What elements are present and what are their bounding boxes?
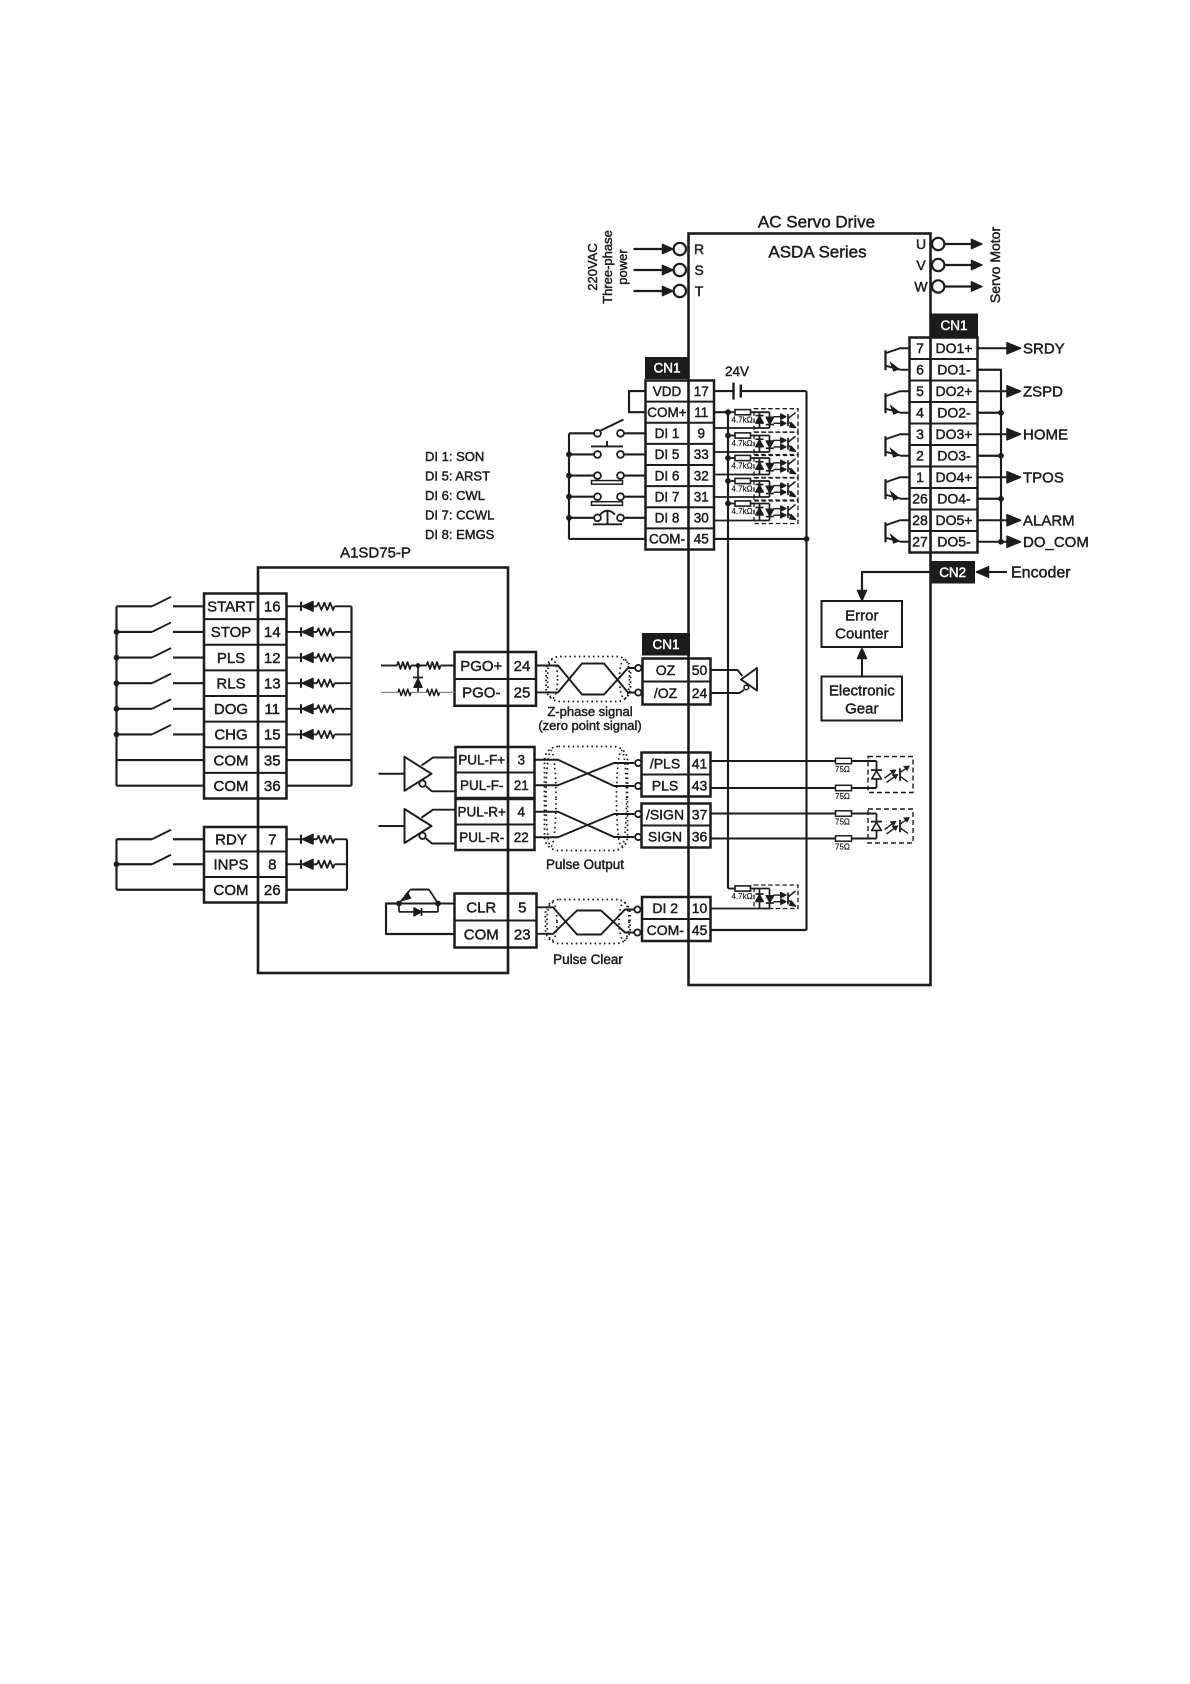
wire DI2 pin 10 to LED	[711, 908, 770, 910]
svg-text:4.7kΩ: 4.7kΩ	[732, 416, 753, 425]
optocoupler LED pair DI1	[759, 412, 761, 428]
svg-text:CN2: CN2	[939, 565, 966, 580]
junction DO5- bus	[998, 539, 1004, 545]
PUL-F pin table	[456, 771, 535, 773]
positioning signal pin table	[204, 618, 287, 620]
optocoupler DI6 dashed box	[754, 455, 798, 479]
pulse clear twisted wires	[537, 907, 635, 934]
svg-text:5: 5	[916, 383, 924, 399]
svg-text:36: 36	[264, 778, 281, 795]
svg-text:STOP: STOP	[211, 624, 252, 641]
svg-text:RDY: RDY	[215, 832, 247, 849]
svg-text:3: 3	[517, 752, 525, 767]
wire bus to COM 35	[117, 759, 205, 761]
svg-text:RLS: RLS	[216, 675, 245, 692]
wire COM 36 to return bus	[287, 785, 352, 787]
svg-text:DOG: DOG	[214, 701, 248, 718]
switch DI8 emergency stop (EMGS)	[607, 511, 609, 525]
svg-text:4.7kΩ: 4.7kΩ	[732, 462, 753, 471]
svg-text:PUL-F+: PUL-F+	[458, 752, 505, 767]
wire CLR common return	[386, 904, 455, 935]
svg-text:Pulse Output: Pulse Output	[546, 857, 624, 872]
svg-text:33: 33	[694, 447, 709, 462]
SIGN entry bubble	[635, 834, 641, 840]
wire DI5 pin to LED	[714, 451, 770, 453]
svg-text:PUL-R-: PUL-R-	[459, 830, 504, 845]
diode and resistor PLS	[287, 657, 302, 659]
svg-text:45: 45	[692, 922, 708, 938]
svg-text:(zero point signal): (zero point signal)	[538, 718, 641, 733]
resistor 4.7kOhm DI2	[735, 886, 751, 891]
PGO- input network wire (shaded)	[381, 691, 398, 693]
svg-text:PGO-: PGO-	[462, 685, 500, 702]
svg-text:11: 11	[264, 701, 280, 718]
transistor DO4	[884, 479, 886, 499]
svg-text:COM: COM	[214, 882, 249, 899]
svg-text:SRDY: SRDY	[1023, 340, 1065, 357]
optocoupler light arrows DI1	[774, 416, 782, 418]
terminal S circle	[674, 264, 686, 276]
svg-text:PUL-F-: PUL-F-	[460, 778, 504, 793]
svg-text:75Ω: 75Ω	[835, 792, 850, 801]
DI switch common bus	[568, 433, 570, 539]
svg-text:/SIGN: /SIGN	[646, 806, 684, 822]
svg-text:15: 15	[264, 727, 281, 744]
svg-text:VDD: VDD	[653, 384, 682, 399]
svg-text:DO2+: DO2+	[936, 383, 973, 399]
wire DO output ALARM	[978, 519, 1009, 521]
svg-text:COM: COM	[214, 752, 249, 769]
/OZ entry bubble	[635, 689, 641, 695]
wire 24V riser down to COM- rail	[805, 391, 807, 930]
optocoupler light arrows DI5	[774, 439, 782, 441]
svg-text:U: U	[916, 236, 926, 252]
switch DI1 wire and contacts	[569, 432, 594, 434]
svg-text:S: S	[694, 262, 703, 278]
svg-text:Z-phase signal: Z-phase signal	[547, 704, 632, 719]
CN1 DO pin table	[910, 358, 978, 360]
junction bus CHG	[114, 732, 120, 738]
diode and resistor INPS	[287, 863, 302, 865]
optocoupler /SIGN/SIGN dashed box	[868, 809, 913, 843]
svg-text:DO_COM: DO_COM	[1023, 534, 1089, 551]
svg-text:DI 5: ARST: DI 5: ARST	[425, 469, 490, 484]
terminal V circle	[932, 259, 944, 271]
terminal T circle	[674, 285, 686, 297]
line driver PUL-R	[379, 825, 405, 827]
svg-text:HOME: HOME	[1023, 426, 1068, 443]
status signal pin table	[204, 850, 287, 852]
switch PLS	[117, 656, 153, 658]
optocoupler LED pair DI6	[759, 458, 761, 475]
Encoder arrow	[977, 567, 989, 577]
svg-text:25: 25	[514, 685, 531, 702]
optocoupler phototransistor DI1	[787, 414, 789, 426]
svg-text:DI 7: CCWL: DI 7: CCWL	[425, 508, 494, 523]
Electronic Gear box	[822, 677, 903, 721]
svg-text:24V: 24V	[725, 364, 749, 379]
junction COM+ bus tap DI7	[725, 478, 731, 484]
junction COM+ bus tap DI8	[725, 501, 731, 507]
junction PGO+ clamp	[416, 663, 421, 668]
arrow Electronic Gear to Error Counter	[861, 657, 863, 677]
resistor 75ohm PLS	[836, 785, 852, 790]
OZ entry bubble	[635, 665, 641, 671]
DI2 pin table	[642, 918, 711, 920]
switch DI5 pushbutton (ARST)	[591, 445, 623, 447]
junction switch bus DI5	[566, 452, 572, 458]
svg-text:26: 26	[264, 882, 281, 899]
diode and resistor RLS	[287, 682, 302, 684]
terminal R circle	[674, 243, 686, 255]
svg-text:COM: COM	[214, 778, 249, 795]
svg-text:14: 14	[264, 624, 281, 641]
open collector transistor CLR	[396, 901, 402, 907]
svg-text:8: 8	[268, 857, 276, 874]
svg-text:4.7kΩ: 4.7kΩ	[732, 892, 753, 901]
svg-text:17: 17	[694, 384, 709, 399]
junction 24V riser / COM- pin 45	[804, 536, 810, 542]
optocoupler LED pair DI8	[759, 504, 761, 521]
/PLS entry bubble	[635, 760, 641, 766]
capacitor 24V	[732, 383, 734, 400]
diode CLR	[398, 904, 400, 912]
Pulse Clear twisted pair cable shield	[546, 900, 631, 944]
svg-text:DO4-: DO4-	[937, 491, 971, 507]
clamp diode PGO	[417, 666, 419, 693]
switch RDY	[117, 838, 153, 840]
svg-text:5: 5	[518, 899, 526, 916]
svg-text:CN1: CN1	[653, 361, 680, 376]
CN1 DI pin table	[646, 401, 715, 403]
CN1 connector label (DO block)	[931, 314, 978, 337]
switch DI1 blade (SON)	[601, 420, 624, 431]
svg-text:COM-: COM-	[649, 532, 685, 547]
CN2 connector label	[931, 562, 975, 584]
optocoupler DI8 dashed box	[754, 500, 798, 524]
junction DO- bus	[998, 410, 1004, 416]
svg-text:CHG: CHG	[214, 727, 247, 744]
wire DO output ZSPD	[978, 390, 1009, 392]
wire COM- pin 45 to riser	[714, 538, 807, 540]
junction DO- bus	[998, 453, 1004, 459]
svg-text:OZ: OZ	[656, 662, 676, 678]
wire bus to COM 36	[117, 785, 205, 787]
svg-text:13: 13	[264, 675, 281, 692]
junction switch bus DI8	[566, 515, 572, 521]
DI2 entry bubble	[634, 906, 640, 912]
svg-text:/PLS: /PLS	[650, 755, 680, 771]
svg-text:power: power	[615, 249, 630, 285]
wire DO- to common bus	[978, 498, 1002, 500]
wire DI8 pin to LED	[714, 520, 770, 522]
svg-text:10: 10	[692, 900, 708, 916]
svg-text:7: 7	[916, 340, 924, 356]
CN1 connector label (OZ block)	[643, 634, 690, 656]
pulse output twisted wires R	[535, 812, 635, 837]
switch DI6 limit contact (CWL)	[592, 481, 623, 485]
optocoupler LED pair DI7	[759, 481, 761, 497]
svg-text:7: 7	[268, 832, 276, 849]
optocoupler LED /PLS/PLS	[876, 761, 878, 788]
svg-text:Servo Motor: Servo Motor	[987, 227, 1003, 304]
switch START	[117, 605, 153, 607]
svg-text:DI 8: EMGS: DI 8: EMGS	[425, 527, 495, 542]
svg-text:45: 45	[694, 532, 709, 547]
switch DI7 limit contact (CCWL)	[592, 502, 623, 506]
optocoupler light arrows DI6	[774, 462, 782, 464]
svg-text:DI 5: DI 5	[655, 447, 680, 462]
wire SIGN to 75ohm resistor	[711, 838, 836, 840]
optocoupler light arrows /PLS	[885, 772, 893, 778]
switch DOG	[117, 708, 153, 710]
optocoupler phototransistor /PLS	[899, 768, 901, 780]
svg-text:INPS: INPS	[213, 857, 248, 874]
svg-text:3: 3	[916, 426, 924, 442]
COM+ vertical bus	[727, 412, 729, 888]
resistor 75ohm /SIGN	[836, 811, 852, 816]
resistor 4.7kOhm DI1	[728, 411, 735, 413]
optocoupler phototransistor DI8	[787, 506, 789, 518]
svg-text:4: 4	[517, 804, 525, 819]
svg-text:/OZ: /OZ	[654, 685, 678, 701]
wire arrow out of U	[945, 243, 973, 245]
resistor PGO+ second	[418, 665, 427, 667]
status switch bus	[115, 839, 117, 890]
wire DO output TPOS	[978, 476, 1009, 478]
wire bus to COM- pin	[569, 538, 646, 540]
AC Servo Drive enclosure box	[689, 234, 931, 986]
svg-text:COM-: COM-	[647, 922, 685, 938]
optocoupler DI5 dashed box	[754, 432, 798, 456]
junction COM+ bus tap DI6	[725, 455, 731, 461]
line driver PUL-F	[379, 773, 405, 775]
wire arrow out of W	[945, 285, 973, 287]
wire VDD pin 17 to 24V capacitor	[714, 390, 734, 392]
svg-text:START: START	[207, 599, 255, 616]
resistor 4.7kOhm DI8	[728, 503, 735, 505]
svg-text:DI 8: DI 8	[655, 511, 680, 526]
optocoupler light arrows DI2	[774, 894, 782, 896]
switch INPS	[117, 863, 153, 865]
junction bus STOP	[114, 629, 120, 635]
resistor PGO+ first	[397, 662, 411, 669]
Error Counter box	[822, 601, 903, 647]
optocoupler /PLS/PLS dashed box	[868, 757, 913, 793]
svg-text:V: V	[916, 257, 926, 273]
optocoupler LED pair DI5	[759, 436, 761, 453]
transistor DO1	[884, 350, 886, 370]
svg-text:4.7kΩ: 4.7kΩ	[732, 507, 753, 516]
svg-text:DI 6: DI 6	[655, 468, 680, 483]
optocoupler light arrows /SIGN	[885, 824, 893, 830]
svg-text:DO3+: DO3+	[936, 426, 973, 442]
svg-text:23: 23	[514, 926, 531, 943]
A1SD75-P enclosure box	[258, 568, 508, 974]
wire DO output SRDY	[978, 347, 1009, 349]
junction switch bus DI7	[566, 494, 572, 500]
wire /PLS to 75ohm resistor	[711, 760, 836, 762]
wire COM+ bus to DI2 resistor	[728, 888, 735, 890]
wire PLS to 75ohm resistor	[711, 787, 836, 789]
svg-text:ALARM: ALARM	[1023, 512, 1075, 529]
svg-text:37: 37	[692, 806, 708, 822]
svg-text:ZSPD: ZSPD	[1023, 383, 1063, 400]
switch DI8 wire and contacts	[569, 517, 594, 519]
wire arrow into T terminal	[634, 290, 664, 292]
svg-text:22: 22	[514, 830, 529, 845]
resistor 75ohm /PLS	[836, 758, 852, 763]
svg-text:9: 9	[697, 426, 705, 441]
optocoupler phototransistor DI2	[787, 893, 789, 905]
svg-text:50: 50	[692, 662, 708, 678]
svg-text:A1SD75-P: A1SD75-P	[340, 545, 411, 562]
svg-text:6: 6	[916, 362, 924, 378]
wire DO output HOME	[978, 433, 1009, 435]
optocoupler DI1 dashed box	[754, 409, 798, 433]
transistor DO3	[884, 436, 886, 456]
svg-text:SIGN: SIGN	[648, 828, 682, 844]
svg-text:43: 43	[692, 777, 708, 793]
svg-text:CLR: CLR	[466, 899, 496, 916]
svg-text:DI 2: DI 2	[652, 900, 678, 916]
wire VDD to COM+ loop	[629, 391, 646, 412]
wire COM 35 to return bus	[287, 759, 352, 761]
svg-text:Pulse Clear: Pulse Clear	[553, 952, 623, 967]
svg-text:16: 16	[264, 599, 281, 616]
SIGN pin table	[642, 824, 711, 826]
svg-text:24: 24	[692, 685, 708, 701]
svg-text:COM+: COM+	[647, 405, 686, 420]
resistor 75ohm SIGN	[836, 836, 852, 841]
svg-text:DI 1: SON: DI 1: SON	[425, 449, 484, 464]
svg-text:DO2-: DO2-	[937, 405, 971, 421]
svg-text:27: 27	[912, 534, 928, 550]
wire DO- to common bus	[978, 412, 1002, 414]
svg-text:DO3-: DO3-	[937, 448, 971, 464]
svg-text:Error: Error	[845, 608, 878, 625]
svg-text:CN1: CN1	[652, 637, 679, 652]
input return bus	[350, 606, 352, 785]
svg-text:35: 35	[264, 752, 281, 769]
terminal W circle	[932, 280, 944, 292]
switch RLS	[117, 682, 153, 684]
resistor 4.7kOhm DI6	[728, 457, 735, 459]
optocoupler LED pair DI2	[759, 889, 761, 909]
optocoupler DI2 dashed box	[754, 885, 798, 909]
svg-text:AC Servo Drive: AC Servo Drive	[758, 213, 875, 232]
svg-text:R: R	[694, 241, 704, 257]
wire /SIGN to 75ohm resistor	[711, 813, 836, 815]
Z-phase twisted pair wires	[536, 666, 635, 695]
svg-text:12: 12	[264, 650, 281, 667]
svg-text:Electronic: Electronic	[829, 683, 895, 700]
svg-text:30: 30	[694, 511, 709, 526]
transistor DO5	[884, 522, 886, 542]
svg-text:21: 21	[514, 778, 529, 793]
svg-text:PLS: PLS	[217, 650, 245, 667]
svg-text:PLS: PLS	[652, 777, 678, 793]
line receiver bubble	[744, 685, 749, 690]
optocoupler light arrows DI8	[774, 508, 782, 510]
svg-text:Three-phase: Three-phase	[600, 230, 615, 304]
junction switch bus DI6	[566, 473, 572, 479]
svg-text:DO1-: DO1-	[937, 362, 971, 378]
switch STOP	[117, 631, 153, 633]
optocoupler DI7 dashed box	[754, 478, 798, 502]
PLS pin table	[642, 773, 711, 775]
svg-text:36: 36	[692, 828, 708, 844]
svg-text:DO5-: DO5-	[937, 534, 971, 550]
status return bus	[346, 839, 348, 890]
diode and resistor START	[287, 605, 302, 607]
wire arrow into R terminal	[634, 248, 664, 250]
wire DI7 pin to LED	[714, 496, 770, 498]
svg-text:11: 11	[694, 405, 708, 420]
svg-text:75Ω: 75Ω	[835, 818, 850, 827]
wire DO5- / DO_COM output	[978, 541, 1009, 543]
optocoupler light arrows DI7	[774, 485, 782, 487]
switch DI6 wire and contacts	[569, 474, 594, 476]
diode and resistor DOG	[287, 708, 302, 710]
OZ pin table	[643, 680, 711, 682]
svg-text:DO4+: DO4+	[936, 469, 973, 485]
wire COM- pin 45 to 24V riser	[711, 929, 807, 931]
svg-text:220VAC: 220VAC	[585, 243, 600, 290]
wire COM 26 to return bus	[287, 889, 348, 891]
switch DI7 wire and contacts	[569, 496, 594, 498]
resistor 4.7kOhm DI5	[728, 435, 735, 437]
svg-text:DI 6: CWL: DI 6: CWL	[425, 488, 485, 503]
svg-text:CN1: CN1	[940, 318, 967, 333]
svg-text:PUL-R+: PUL-R+	[458, 804, 507, 819]
wire OZ pin 50 to line receiver	[711, 670, 743, 676]
svg-text:COM: COM	[464, 926, 499, 943]
diode and resistor RDY	[287, 838, 302, 840]
svg-text:26: 26	[912, 491, 928, 507]
svg-text:DO1+: DO1+	[936, 340, 973, 356]
svg-text:Counter: Counter	[835, 626, 888, 643]
wire arrow out of V	[945, 264, 973, 266]
svg-text:W: W	[914, 279, 928, 295]
svg-text:28: 28	[912, 512, 928, 528]
PGO pin table	[455, 678, 537, 680]
svg-text:T: T	[695, 283, 704, 299]
wire DI1 pin to LED	[714, 427, 770, 429]
wire DI6 pin to LED	[714, 474, 770, 476]
PLS entry bubble	[635, 783, 641, 789]
svg-text:4: 4	[916, 405, 924, 421]
Z-phase twisted pair cable shield	[546, 657, 631, 702]
Pulse Output twisted pair cable shield	[545, 747, 628, 851]
junction bus DOG	[114, 706, 120, 712]
transistor DO2	[884, 393, 886, 413]
junction bus PLS	[114, 655, 120, 661]
/SIGN entry bubble	[635, 811, 641, 817]
wire CN2 to Error Counter	[862, 572, 931, 592]
optocoupler phototransistor /SIGN	[899, 820, 901, 832]
wire arrow into S terminal	[634, 269, 664, 271]
CLR pin table	[455, 919, 537, 921]
junction DO- bus	[998, 496, 1004, 502]
wire bus to COM 26	[117, 889, 205, 891]
svg-text:41: 41	[692, 755, 708, 771]
svg-text:DI 7: DI 7	[655, 489, 680, 504]
optocoupler phototransistor DI5	[787, 438, 789, 450]
svg-text:DO5+: DO5+	[936, 512, 973, 528]
wire /OZ pin 24 to line receiver	[711, 690, 745, 693]
svg-text:Encoder: Encoder	[1011, 565, 1071, 582]
